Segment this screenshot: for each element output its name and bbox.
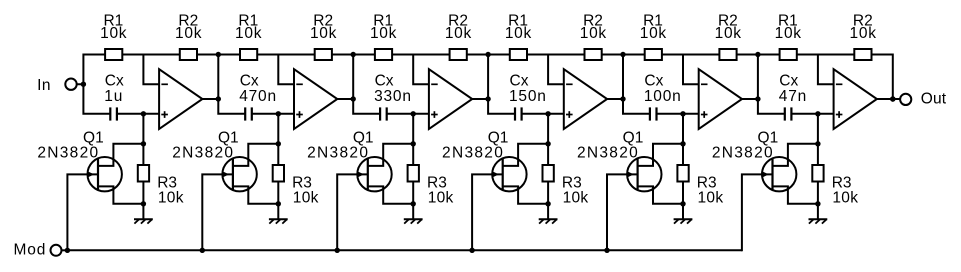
svg-text:Cx: Cx [375,72,394,89]
node: stage 1 + input junction [141,111,146,116]
capacitor Cx (stage 1) [109,107,111,120]
op-amp U5 [699,69,742,129]
terminal Out [900,94,911,105]
wire: stage 4 input column [488,54,514,114]
node: stage 2 mod junction [200,248,205,253]
wire: stage 1 drain lead [98,144,143,166]
op-amp U3 [429,69,472,129]
wire: stage 1 gate column [67,174,98,251]
wire: Mod stub [62,249,68,251]
wire: stage 5 source lead [638,186,683,203]
resistor R3 (stage 1) [138,165,149,182]
svg-text:10k: 10k [445,25,472,42]
wire: stage 3 drain lead [368,144,413,166]
resistor R2 (stage 4) [585,49,602,60]
svg-text:10k: 10k [698,190,724,207]
op-amp U2 [294,69,337,129]
node: stage 3 drain/R3 junction [411,141,416,146]
svg-text:Cx: Cx [105,72,124,89]
svg-text:1u: 1u [104,88,123,105]
svg-text:100n: 100n [644,88,682,105]
svg-text:10k: 10k [310,25,337,42]
capacitor Cx (stage 3) [379,107,381,120]
wire: stage 2 op-amp output [337,98,353,100]
wire: top bus (R ladder rail) [83,54,892,56]
wire: stage 3 source lead [368,186,413,203]
svg-text:10k: 10k [235,25,262,42]
svg-text:10k: 10k [850,25,877,42]
svg-text:10k: 10k [175,25,202,42]
wire: stage 6 source lead [773,186,818,203]
transistor Q1 channel bar (stage 3) [367,159,369,190]
svg-text:2N3820: 2N3820 [307,145,369,162]
node: stage 4 source/R3 junction [545,201,550,206]
svg-text:10k: 10k [775,25,802,42]
transistor Q1 channel bar (stage 4) [502,159,504,190]
wire: stage 5 input column [623,54,649,114]
wire: stage 5 drain lead [638,144,683,166]
transistor Q1 gate arrow (stage 4) [492,171,499,178]
node: stage 2 output junction [351,96,356,101]
svg-text:10k: 10k [832,190,858,207]
svg-text:47n: 47n [779,88,807,105]
resistor R1 (stage 4) [510,49,527,60]
transistor Q1 gate arrow (stage 5) [627,171,634,178]
wire: stage 3 gate column [337,174,368,251]
op-amp U1 [159,69,202,129]
wire: stage 6 R3 column [817,144,819,204]
wire: stage 3 input column [353,54,379,114]
node: stage 1 source/R3 junction [141,201,146,206]
svg-text:Cx: Cx [510,72,529,89]
resistor R2 (stage 5) [719,49,736,60]
svg-text:10k: 10k [563,190,589,207]
node: stage 5 drain/R3 junction [680,141,685,146]
node: stage 6 input on top bus [755,52,760,57]
node: output junction [890,96,895,101]
node: stage 2 input on top bus [216,52,221,57]
transistor Q1 channel bar (stage 5) [636,159,638,190]
wire: stage 2 input column [218,54,244,114]
transistor Q1 gate arrow (stage 3) [357,171,364,178]
transistor Q1 (stage 5) 2N3820 [627,157,661,191]
node: stage 2 source/R3 junction [276,201,281,206]
svg-text:10k: 10k [428,190,454,207]
wire: stage 3 + node down to drain/R3 [412,114,414,144]
node: stage 4 + input junction [545,111,550,116]
resistor R2 (stage 3) [450,49,467,60]
node: stage 6 drain/R3 junction [815,141,820,146]
node: stage 5 input on top bus [620,52,625,57]
ground (stage 3) [412,204,414,220]
node: stage 2 + input junction [276,111,281,116]
wire: stage 5 op-amp output [742,98,758,100]
svg-text:Out: Out [921,91,947,108]
wire: stage 6 gate column [742,174,773,251]
resistor R1 (stage 6) [780,49,797,60]
node: stage 1 mod junction [65,248,70,253]
wire: stage 2 R1/R2 node to inverting input [278,55,294,85]
wire: stage 4 gate column [472,174,503,251]
wire: stage 4 drain lead [503,144,548,166]
svg-text:330n: 330n [374,88,412,105]
node: stage 1 drain/R3 junction [141,141,146,146]
op-amp U6 [834,69,877,129]
svg-text:10k: 10k [715,25,742,42]
wire: stage 1 + node down to drain/R3 [142,114,144,144]
node: stage 3 input on top bus [351,52,356,57]
wire: stage 3 op-amp output [472,98,488,100]
svg-text:10k: 10k [158,190,184,207]
svg-text:10k: 10k [370,25,397,42]
svg-text:Cx: Cx [240,72,259,89]
transistor Q1 (stage 3) 2N3820 [357,157,391,191]
capacitor Cx (stage 2) [244,107,246,120]
terminal Mod [51,245,62,256]
wire: stage 6 + node down to drain/R3 [817,114,819,144]
svg-text:10k: 10k [100,25,127,42]
transistor Q1 gate arrow (stage 6) [762,171,769,178]
wire: Out stub [893,98,900,100]
resistor R1 (stage 3) [375,49,392,60]
wire: stage 6 drain lead [773,144,818,166]
svg-text:Cx: Cx [779,72,798,89]
svg-text:10k: 10k [580,25,607,42]
wire: stage 4 R1/R2 node to inverting input [548,55,564,85]
capacitor Cx (stage 4) [514,107,516,120]
wire: stage 2 gate column [202,174,233,251]
capacitor Cx (stage 6) [784,107,786,120]
wire: stage 4 + node down to drain/R3 [547,114,549,144]
resistor R1 (stage 5) [645,49,662,60]
resistor R1 (stage 1) [105,49,122,60]
wire: stage 1 source lead [98,186,143,203]
node: stage 5 output junction [755,96,760,101]
svg-text:2N3820: 2N3820 [577,145,639,162]
node: stage 6 + input junction [815,111,820,116]
resistor R3 (stage 5) [677,165,688,182]
wire: stage 1 cap row to + input [117,113,159,115]
transistor Q1 (stage 2) 2N3820 [222,157,256,191]
wire: stage 2 source lead [233,186,278,203]
svg-text:2N3820: 2N3820 [172,145,234,162]
node: In junction [81,82,86,87]
terminal In [65,79,76,90]
svg-text:150n: 150n [509,88,547,105]
wire: stage 1 R1/R2 node to inverting input [143,55,159,85]
resistor R3 (stage 4) [543,165,554,182]
transistor Q1 gate arrow (stage 2) [222,171,229,178]
resistor R3 (stage 3) [408,165,419,182]
op-amp U4 [564,69,607,129]
node: stage 3 source/R3 junction [411,201,416,206]
wire: stage 3 R3 column [412,144,414,204]
wire: stage 1 R3 column [142,144,144,204]
wire: stage 5 gate column [607,174,638,251]
wire: stage 6 input column [758,54,784,114]
resistor R2 (stage 2) [315,49,332,60]
wire: stage 4 cap row to + input [522,113,564,115]
wire: stage 2 R3 column [277,144,279,204]
ground (stage 4) [547,204,549,220]
ground (stage 2) [277,204,279,220]
transistor Q1 (stage 6) 2N3820 [762,157,796,191]
resistor R2 (stage 6) [854,49,871,60]
svg-text:10k: 10k [505,25,532,42]
node: stage 6 source/R3 junction [815,201,820,206]
wire: final output column [892,54,894,100]
transistor Q1 channel bar (stage 1) [97,159,99,190]
wire: stage 6 R1/R2 node to inverting input [818,55,834,85]
svg-text:In: In [37,77,51,94]
transistor Q1 (stage 1) 2N3820 [88,157,122,191]
wire: In stub [65,83,84,85]
node: stage 6 output junction [890,96,895,101]
wire: stage 3 R1/R2 node to inverting input [413,55,429,85]
node: stage 2 drain/R3 junction [276,141,281,146]
ground (stage 1) [142,204,144,220]
wire: stage 4 source lead [503,186,548,203]
resistor R3 (stage 2) [273,165,284,182]
wire: stage 6 cap row to + input [792,113,834,115]
transistor Q1 channel bar (stage 2) [232,159,234,190]
node: stage 5 source/R3 junction [680,201,685,206]
resistor R3 (stage 6) [812,165,823,182]
wire: stage 3 cap row to + input [387,113,429,115]
wire: stage 2 + node down to drain/R3 [277,114,279,144]
ground (stage 6) [817,204,819,220]
node: stage 5 + input junction [680,111,685,116]
node: stage 5 mod junction [604,248,609,253]
node: stage 1 output junction [216,96,221,101]
resistor R2 (stage 1) [180,49,197,60]
node: stage 4 input on top bus [485,52,490,57]
capacitor Cx (stage 5) [649,107,651,120]
node: stage 4 drain/R3 junction [545,141,550,146]
wire: stage 5 + node down to drain/R3 [682,114,684,144]
wire: stage 2 drain lead [233,144,278,166]
svg-text:10k: 10k [640,25,667,42]
wire: stage 5 R3 column [682,144,684,204]
svg-text:470n: 470n [239,88,277,105]
node: stage 4 mod junction [469,248,474,253]
svg-text:2N3820: 2N3820 [37,145,99,162]
wire: stage 5 R1/R2 node to inverting input [683,55,699,85]
svg-text:Cx: Cx [644,72,663,89]
node: stage 3 + input junction [411,111,416,116]
svg-text:2N3820: 2N3820 [712,145,774,162]
svg-text:10k: 10k [293,190,319,207]
wire: stage 2 cap row to + input [252,113,294,115]
ground (stage 5) [682,204,684,220]
wire: stage 6 op-amp output [877,98,893,100]
wire: mod bus [67,249,742,251]
resistor R1 (stage 2) [240,49,257,60]
node: stage 3 mod junction [335,248,340,253]
transistor Q1 gate arrow (stage 1) [87,171,94,178]
wire: stage 1 op-amp output [202,98,218,100]
node: stage 3 output junction [485,96,490,101]
svg-text:Mod: Mod [13,242,46,259]
wire: stage 4 R3 column [547,144,549,204]
wire: stage 4 op-amp output [607,98,623,100]
transistor Q1 (stage 4) 2N3820 [492,157,526,191]
node: stage 4 output junction [620,96,625,101]
wire: stage 5 cap row to + input [657,113,699,115]
transistor Q1 channel bar (stage 6) [771,159,773,190]
svg-text:2N3820: 2N3820 [442,145,504,162]
wire: stage 1 input column [83,54,109,114]
